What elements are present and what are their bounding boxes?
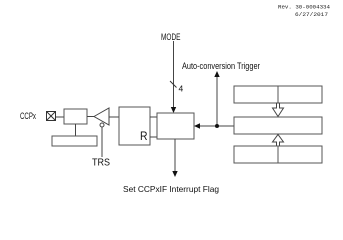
arrowhead into logic block (left) bbox=[194, 123, 200, 128]
output R latch block bbox=[119, 107, 150, 145]
svg-text:CCPx: CCPx bbox=[20, 111, 36, 121]
svg-text:Set CCPxIF Interrupt Flag: Set CCPxIF Interrupt Flag bbox=[123, 184, 219, 194]
tri-state buffer (triangle, pointing left) bbox=[94, 108, 109, 125]
svg-text:4: 4 bbox=[179, 84, 184, 94]
wire latch to tri-state buffer bbox=[87, 116, 94, 118]
divider top box bbox=[277, 86, 279, 103]
wire latch stub lower bbox=[150, 136, 157, 138]
compare match / output logic block bbox=[157, 113, 194, 139]
wire pin to output latch bbox=[56, 116, 64, 118]
register CCPRxH:CCPRxL (top box) bbox=[234, 86, 322, 103]
wire TRIS enable bbox=[101, 127, 103, 157]
wire buffer to R latch bbox=[109, 116, 119, 118]
bus-width slash bbox=[170, 81, 177, 88]
pin pad CCPx (crossed box) bbox=[47, 112, 56, 121]
hollow arrow up (bottom box to comparator) bbox=[273, 135, 284, 147]
wire comparator output to logic block bbox=[199, 125, 234, 127]
register TMR1H:TMR1L (bottom box) bbox=[234, 146, 322, 163]
wire auto-conversion trigger (vertical) bbox=[216, 76, 218, 126]
junction node bbox=[215, 124, 219, 128]
vertical line below output latch bbox=[75, 124, 77, 136]
svg-text:MODE: MODE bbox=[161, 32, 181, 43]
enable bubble on buffer bbox=[100, 123, 104, 127]
arrowhead MODE into CCPx output block bbox=[171, 107, 176, 113]
wire MODE select bus (vertical) bbox=[173, 41, 175, 108]
wire latch stub upper bbox=[150, 116, 157, 118]
divider bottom box bbox=[277, 146, 279, 163]
svg-text:Auto-conversion Trigger: Auto-conversion Trigger bbox=[182, 61, 260, 71]
arrowhead auto-conversion trigger (up) bbox=[214, 71, 219, 77]
svg-text:TRS: TRS bbox=[92, 158, 110, 169]
svg-text:Rev. 30-0004334: Rev. 30-0004334 bbox=[278, 4, 331, 11]
svg-text:R: R bbox=[140, 129, 148, 143]
hollow arrow down (top box to comparator) bbox=[273, 103, 284, 117]
svg-text:6/27/2017: 6/27/2017 bbox=[295, 11, 328, 18]
lower control block bbox=[52, 136, 97, 146]
arrowhead set interrupt (down) bbox=[172, 171, 177, 177]
comparator (middle box) bbox=[234, 117, 322, 134]
wire match to interrupt bbox=[174, 139, 176, 172]
output latch block bbox=[64, 109, 87, 124]
